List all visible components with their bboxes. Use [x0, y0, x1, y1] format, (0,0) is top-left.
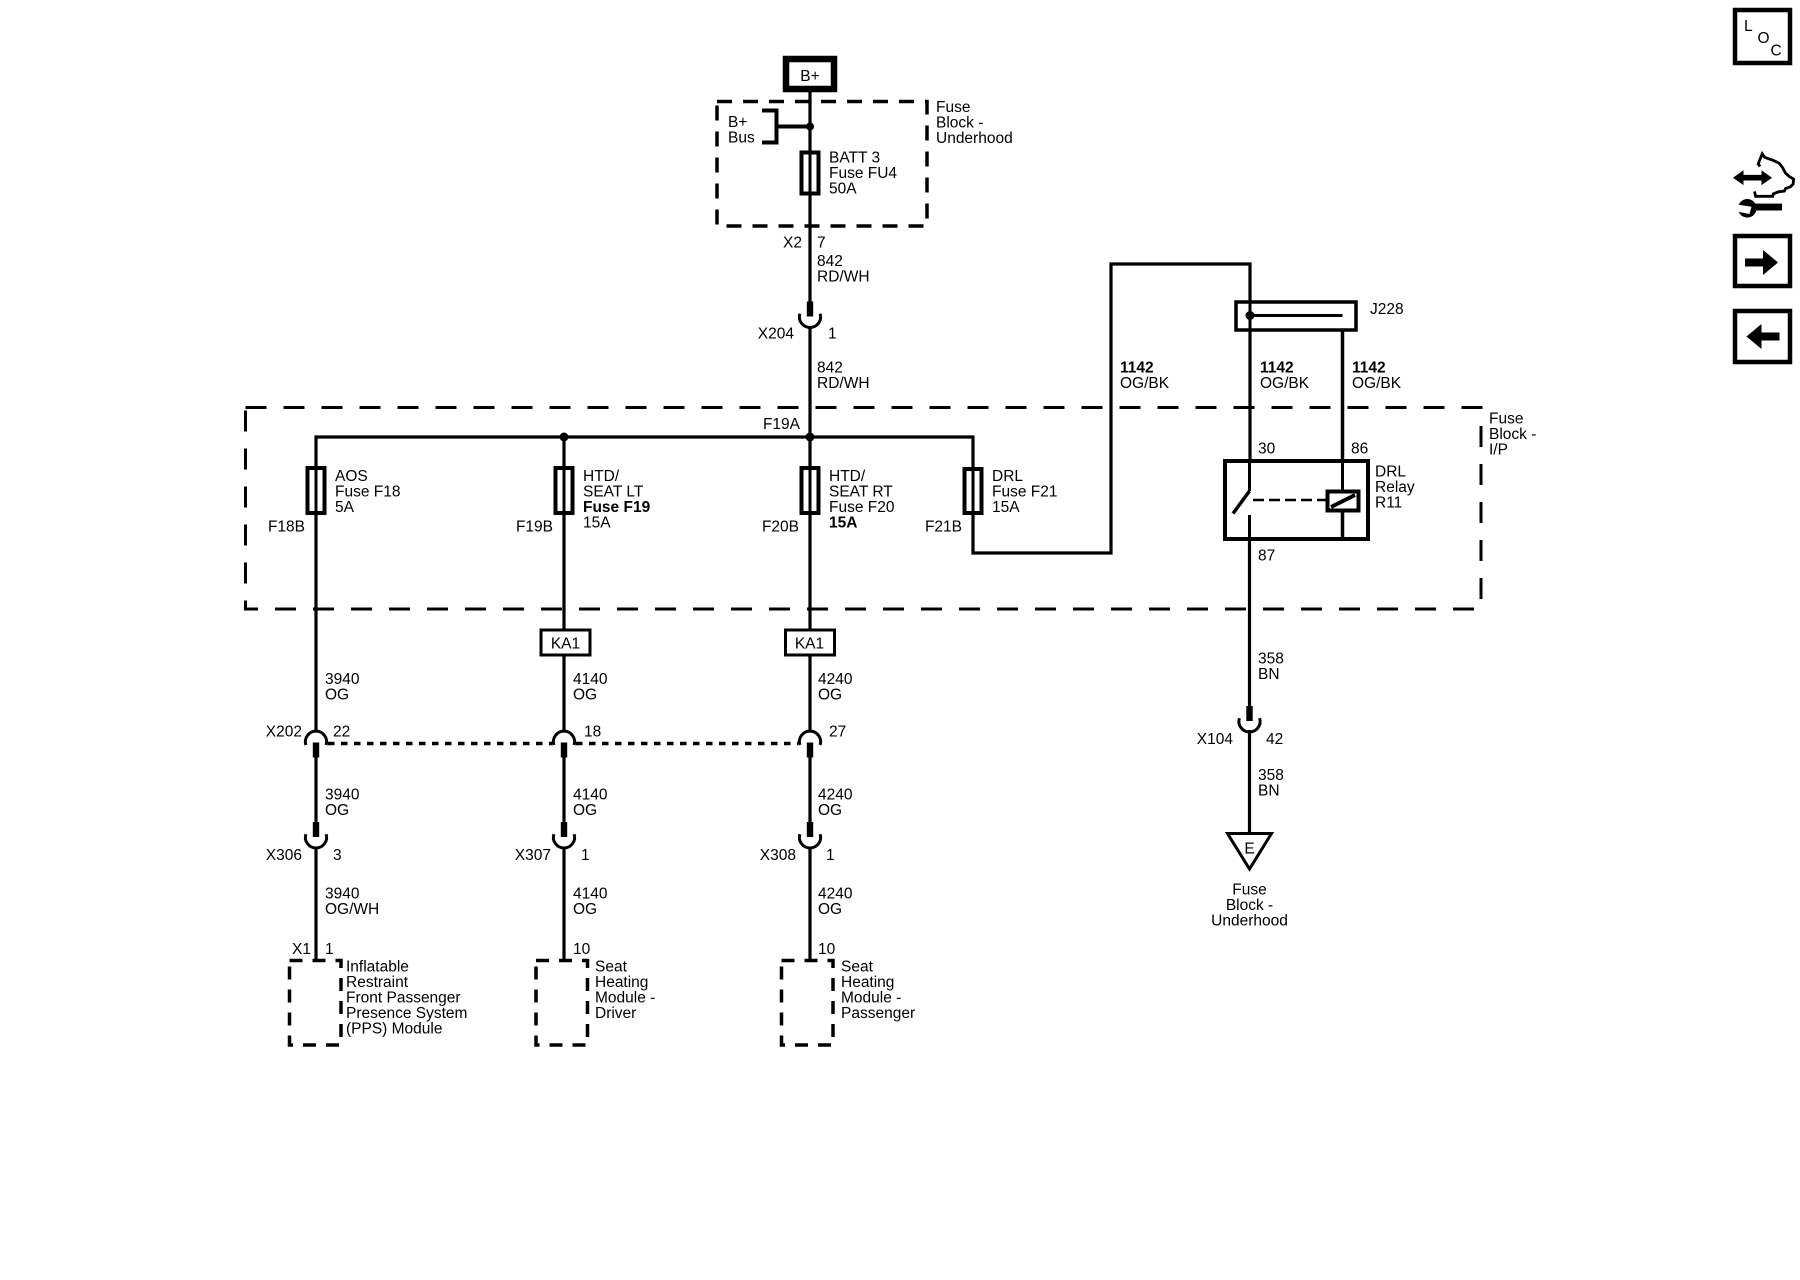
svg-text:X104: X104	[1197, 731, 1234, 748]
svg-text:OG: OG	[325, 687, 349, 704]
svg-text:Underhood: Underhood	[936, 130, 1013, 147]
svg-text:OG: OG	[573, 687, 597, 704]
svg-text:Fuse: Fuse	[936, 99, 970, 116]
svg-text:3940: 3940	[325, 787, 360, 804]
svg-text:Block -: Block -	[1226, 897, 1273, 914]
svg-text:Block -: Block -	[1489, 426, 1536, 443]
svg-text:842: 842	[817, 360, 843, 377]
svg-text:OG: OG	[325, 802, 349, 819]
svg-text:10: 10	[573, 941, 591, 958]
svg-text:OG: OG	[573, 802, 597, 819]
svg-text:30: 30	[1258, 441, 1276, 458]
svg-text:B+: B+	[800, 68, 819, 85]
svg-text:Fuse: Fuse	[1489, 411, 1523, 428]
svg-text:1: 1	[325, 941, 334, 958]
svg-text:4240: 4240	[818, 787, 853, 804]
svg-text:DRL: DRL	[1375, 464, 1406, 481]
svg-text:Restraint: Restraint	[346, 974, 409, 991]
svg-text:15A: 15A	[829, 515, 857, 532]
svg-text:50A: 50A	[829, 181, 857, 198]
svg-text:10: 10	[818, 941, 836, 958]
svg-text:Fuse F18: Fuse F18	[335, 484, 400, 501]
svg-text:F19B: F19B	[516, 519, 553, 536]
svg-text:Fuse F19: Fuse F19	[583, 499, 651, 516]
svg-text:X1: X1	[292, 941, 311, 958]
svg-text:Fuse FU4: Fuse FU4	[829, 165, 897, 182]
svg-text:HTD/: HTD/	[829, 468, 866, 485]
svg-text:Inflatable: Inflatable	[346, 959, 409, 976]
svg-text:Module -: Module -	[841, 990, 901, 1007]
svg-text:Underhood: Underhood	[1211, 913, 1288, 930]
svg-text:842: 842	[817, 253, 843, 270]
svg-text:OG: OG	[818, 687, 842, 704]
svg-text:RD/WH: RD/WH	[817, 375, 870, 392]
svg-text:1: 1	[826, 847, 835, 864]
svg-text:Module -: Module -	[595, 990, 655, 1007]
svg-text:358: 358	[1258, 767, 1284, 784]
svg-text:5A: 5A	[335, 499, 355, 516]
svg-text:HTD/: HTD/	[583, 468, 620, 485]
svg-text:Heating: Heating	[595, 974, 648, 991]
svg-text:4140: 4140	[573, 671, 608, 688]
svg-text:358: 358	[1258, 651, 1284, 668]
svg-text:Heating: Heating	[841, 974, 894, 991]
svg-text:OG/BK: OG/BK	[1352, 375, 1402, 392]
svg-text:X306: X306	[266, 847, 302, 864]
svg-text:Front Passenger: Front Passenger	[346, 990, 461, 1007]
svg-text:Driver: Driver	[595, 1005, 636, 1022]
svg-text:E: E	[1244, 841, 1254, 858]
svg-text:7: 7	[817, 235, 826, 252]
svg-text:4140: 4140	[573, 787, 608, 804]
svg-text:3940: 3940	[325, 886, 360, 903]
svg-text:27: 27	[829, 724, 846, 741]
svg-text:OG/WH: OG/WH	[325, 901, 379, 918]
svg-text:F18B: F18B	[268, 519, 305, 536]
svg-text:L: L	[1744, 18, 1753, 35]
svg-text:4140: 4140	[573, 886, 608, 903]
svg-text:1: 1	[581, 847, 590, 864]
svg-text:B+: B+	[728, 114, 747, 131]
svg-text:15A: 15A	[583, 515, 611, 532]
svg-text:Seat: Seat	[595, 959, 628, 976]
svg-text:OG/BK: OG/BK	[1260, 375, 1310, 392]
svg-text:F19A: F19A	[763, 416, 801, 433]
svg-text:X308: X308	[760, 847, 796, 864]
svg-text:(PPS) Module: (PPS) Module	[346, 1021, 442, 1038]
svg-text:22: 22	[333, 724, 350, 741]
svg-text:I/P: I/P	[1489, 442, 1508, 459]
svg-text:Fuse: Fuse	[1232, 882, 1266, 899]
svg-text:BN: BN	[1258, 783, 1280, 800]
svg-text:R11: R11	[1375, 495, 1402, 512]
svg-text:1142: 1142	[1260, 360, 1294, 377]
svg-text:KA1: KA1	[551, 636, 580, 653]
svg-text:3: 3	[333, 847, 342, 864]
svg-text:AOS: AOS	[335, 468, 368, 485]
svg-text:F20B: F20B	[762, 519, 799, 536]
svg-text:X202: X202	[266, 724, 302, 741]
svg-text:X204: X204	[758, 326, 795, 343]
svg-text:42: 42	[1266, 731, 1283, 748]
svg-text:RD/WH: RD/WH	[817, 269, 870, 286]
svg-text:SEAT RT: SEAT RT	[829, 484, 893, 501]
svg-text:Presence System: Presence System	[346, 1005, 467, 1022]
svg-text:OG: OG	[818, 802, 842, 819]
svg-text:1: 1	[828, 326, 837, 343]
svg-text:18: 18	[584, 724, 601, 741]
svg-text:87: 87	[1258, 548, 1275, 565]
svg-text:SEAT LT: SEAT LT	[583, 484, 644, 501]
svg-text:86: 86	[1351, 441, 1368, 458]
svg-text:4240: 4240	[818, 671, 853, 688]
svg-text:DRL: DRL	[992, 468, 1023, 485]
svg-text:BATT 3: BATT 3	[829, 150, 880, 167]
svg-text:BN: BN	[1258, 666, 1280, 683]
svg-text:1142: 1142	[1352, 360, 1386, 377]
svg-text:F21B: F21B	[925, 519, 962, 536]
svg-text:C: C	[1771, 43, 1782, 60]
svg-text:Passenger: Passenger	[841, 1005, 915, 1022]
svg-text:Seat: Seat	[841, 959, 874, 976]
svg-text:3940: 3940	[325, 671, 360, 688]
svg-text:OG: OG	[573, 901, 597, 918]
svg-text:OG: OG	[818, 901, 842, 918]
svg-text:X2: X2	[783, 235, 802, 252]
svg-text:Fuse F21: Fuse F21	[992, 484, 1057, 501]
svg-text:OG/BK: OG/BK	[1120, 375, 1170, 392]
svg-text:KA1: KA1	[795, 636, 824, 653]
svg-text:X307: X307	[515, 847, 551, 864]
svg-text:Fuse F20: Fuse F20	[829, 499, 895, 516]
svg-text:J228: J228	[1370, 301, 1404, 318]
svg-text:1142: 1142	[1120, 360, 1154, 377]
svg-text:Block -: Block -	[936, 115, 983, 132]
svg-text:Bus: Bus	[728, 130, 755, 147]
svg-text:Relay: Relay	[1375, 479, 1415, 496]
svg-text:O: O	[1758, 30, 1770, 47]
svg-text:4240: 4240	[818, 886, 853, 903]
svg-text:15A: 15A	[992, 499, 1020, 516]
